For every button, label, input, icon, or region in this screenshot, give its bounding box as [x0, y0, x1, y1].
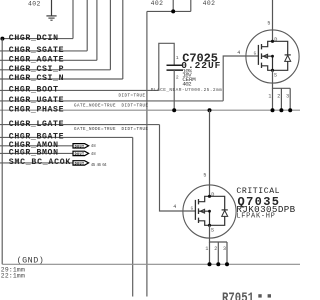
svg-text:1: 1 — [176, 55, 179, 61]
svg-text:402: 402 — [28, 0, 41, 7]
svg-text:402: 402 — [182, 81, 192, 88]
wire BOOT top bus (horizontal y=11.4 with stubs to top edge) — [147, 0, 191, 11]
svg-text:CHGR_CSI_N: CHGR_CSI_N — [9, 74, 64, 83]
svg-text:SMC_BC_ACOK: SMC_BC_ACOK — [9, 158, 71, 167]
wire CHGR_BOOT riser to capacitor C7025 pin 1 — [159, 43, 174, 90]
svg-text:1: 1 — [268, 93, 271, 99]
svg-text:DOUT: DOUT — [75, 153, 84, 157]
gate bar — [257, 45, 259, 65]
transistor upper high-side MOSFET (no refdes shown) — [237, 0, 299, 110]
source pin wire and pin bar — [210, 225, 228, 242]
node upper FET pin2 on phase bus — [279, 108, 283, 112]
svg-text:3: 3 — [223, 246, 226, 252]
svg-text:CHGR_LGATE: CHGR_LGATE — [9, 120, 64, 129]
node lower FET pin1 on gnd rail — [208, 262, 212, 266]
net label CHGR_PHASE (phase bus across page) — [0, 104, 300, 114]
svg-text:CHGR_PHASE: CHGR_PHASE — [9, 105, 64, 114]
port DOUT (CHGR_BMON) — [73, 151, 96, 157]
svg-text:GATE_NODE=TRUE: GATE_NODE=TRUE — [74, 104, 116, 108]
net label CHGR_DCIN — [2, 0, 73, 43]
svg-text:CHGR_UGATE: CHGR_UGATE — [9, 96, 64, 105]
svg-text:3: 3 — [286, 93, 289, 99]
node BOOT junction at top — [171, 9, 175, 13]
wire DCIN left vertical border drop — [1, 39, 3, 265]
net label CHGR_SGATE — [0, 0, 87, 55]
ground — [46, 0, 56, 20]
net label SMC_BC_ACOK — [0, 158, 73, 167]
svg-text:48: 48 — [91, 153, 96, 157]
svg-text:CHGR_DCIN: CHGR_DCIN — [9, 34, 58, 43]
svg-text:PLACE_NEAR-U7000.25.2mm: PLACE_NEAR-U7000.25.2mm — [151, 87, 222, 93]
D / S node dots and labels — [208, 195, 211, 198]
source pin wire and pin bar — [273, 70, 291, 88]
pin 5 drain wire from phase bus — [209, 110, 211, 196]
net label CHGR_BMON — [0, 149, 73, 158]
svg-text:CHGR_AGATE: CHGR_AGATE — [9, 56, 64, 65]
net label CHGR_LGATE — [0, 120, 160, 132]
node PHASE / lower FET drain junction — [208, 108, 212, 112]
body diode — [210, 196, 225, 225]
net label CHGR_AGATE — [0, 0, 97, 65]
net label CHGR_CSI_P — [0, 0, 110, 74]
svg-text:LFPAK-HP: LFPAK-HP — [236, 212, 274, 220]
svg-text:402: 402 — [151, 0, 164, 7]
svg-text:48: 48 — [91, 145, 96, 149]
svg-text:S: S — [274, 73, 277, 79]
D / S node dots and labels — [271, 40, 274, 43]
net label CHGR_BGATE — [0, 133, 133, 142]
svg-text:4: 4 — [173, 204, 176, 210]
resistor R7051 label (clipped at page bottom) — [222, 290, 271, 300]
net label CHGR_CSI_N — [0, 0, 123, 83]
svg-text:DOUT: DOUT — [75, 162, 84, 166]
svg-text:D: D — [274, 37, 277, 43]
body contact with arrow — [199, 211, 210, 225]
node CHGR_DCIN left junction — [0, 37, 4, 41]
node PHASE / C7025 pin2 junction — [172, 108, 176, 112]
svg-text:45 46 64: 45 46 64 — [91, 164, 107, 168]
source contact — [262, 66, 273, 71]
drain contact — [262, 41, 273, 46]
gate bar — [194, 200, 196, 220]
port DOUT (SMC_BC_ACOK) — [73, 161, 107, 168]
body contact with arrow — [262, 56, 273, 70]
channel segments — [198, 199, 200, 223]
svg-text:DOUT: DOUT — [75, 145, 84, 149]
svg-text:D: D — [211, 192, 214, 198]
wire CHGR_LGATE riser to lower FET gate — [160, 125, 196, 211]
value labels for Q7035 — [236, 187, 295, 221]
svg-text:22:1mm: 22:1mm — [1, 273, 25, 280]
svg-text:5: 5 — [267, 21, 270, 27]
pin 5 drain wire from top edge — [272, 0, 274, 41]
svg-text:DIDT=TRUE: DIDT=TRUE — [122, 128, 149, 132]
wire CHGR_BGATE drop (off bottom of page) — [132, 137, 134, 296]
port DOUT (CHGR_AMON) — [73, 144, 96, 150]
node lower FET pin3 on gnd rail — [225, 262, 229, 266]
svg-text:S: S — [211, 228, 214, 234]
source contact — [199, 221, 210, 226]
svg-text:402: 402 — [203, 0, 216, 7]
node lower FET pin2 on gnd rail — [216, 262, 220, 266]
svg-text:2: 2 — [214, 246, 217, 252]
node upper FET pin3 on phase bus — [288, 108, 292, 112]
svg-text:CHGR_SGATE: CHGR_SGATE — [9, 46, 64, 55]
wire GND rail — [2, 263, 300, 265]
node upper FET pin1 on phase bus — [271, 108, 275, 112]
body diode — [273, 41, 288, 70]
svg-text:CHGR_CSI_P: CHGR_CSI_P — [9, 65, 64, 74]
svg-text:2: 2 — [176, 74, 179, 80]
svg-text:5: 5 — [203, 173, 206, 179]
svg-text:CHGR_BOOT: CHGR_BOOT — [9, 86, 58, 95]
capacitor C7025 — [167, 51, 221, 110]
pins 1 2 3 drops to gnd rail — [210, 242, 228, 264]
transistor Q7035 low-side MOSFET — [173, 110, 236, 264]
net label CHGR_UGATE — [0, 94, 223, 105]
svg-text:DIDT=TRUE: DIDT=TRUE — [119, 94, 146, 98]
drain contact — [199, 196, 210, 201]
net label CHGR_AMON — [0, 141, 73, 150]
wire long vertical net (x=147 from top bus down off bottom) — [146, 11, 148, 296]
channel segments — [261, 44, 263, 68]
svg-text:R7051: R7051 — [222, 290, 254, 300]
svg-text:1: 1 — [205, 246, 208, 252]
pins 1 2 3 drops to phase bus — [273, 88, 291, 110]
svg-text:4: 4 — [237, 50, 240, 56]
svg-text:2: 2 — [277, 93, 280, 99]
svg-text:DIDT=TRUE: DIDT=TRUE — [122, 104, 149, 108]
wire CHGR_UGATE riser to upper FET gate — [223, 56, 258, 101]
svg-text:GATE_NODE=TRUE: GATE_NODE=TRUE — [74, 128, 116, 132]
svg-text:CHGR_BMON: CHGR_BMON — [9, 149, 58, 158]
net label CHGR_BOOT — [0, 86, 159, 95]
